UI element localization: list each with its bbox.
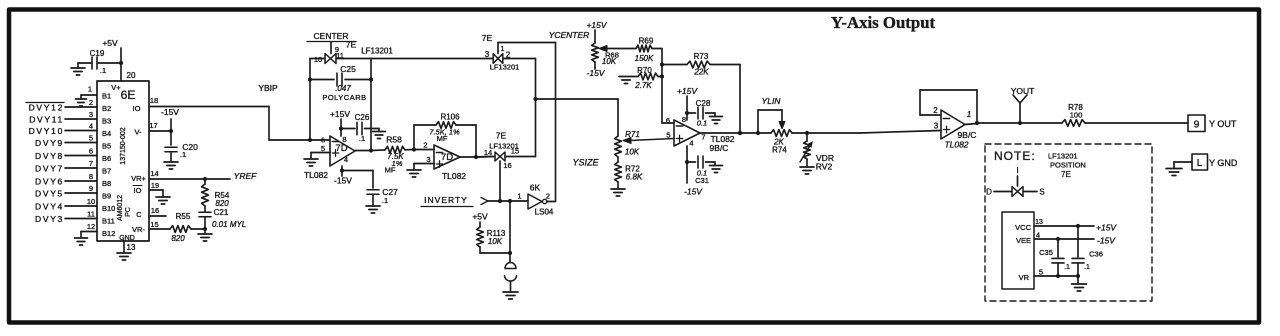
svg-text:RV2: RV2: [816, 162, 833, 172]
svg-text:10: 10: [314, 55, 322, 64]
wire R113 to jumper: [480, 251, 512, 255]
svg-text:5: 5: [1039, 268, 1043, 277]
wire op2 to switch c: [476, 156, 495, 159]
junction YLIN: [756, 131, 760, 135]
NOTE dashed box: [985, 144, 1152, 301]
net CENTER label: [307, 31, 356, 42]
svg-text:7D: 7D: [441, 152, 453, 163]
control net wire: [498, 43, 556, 202]
svg-text:YBIP: YBIP: [258, 83, 278, 93]
svg-text:GND: GND: [119, 235, 135, 242]
svg-text:10K: 10K: [625, 148, 640, 157]
svg-text:D: D: [986, 188, 992, 197]
op3 part TL082: [710, 134, 734, 144]
svg-text:Y OUT: Y OUT: [1209, 119, 1237, 129]
DAC GND label: [119, 235, 135, 242]
op3 pin 4: [689, 139, 693, 148]
svg-text:LF13201: LF13201: [490, 63, 520, 72]
NOTE VR label: [1019, 273, 1030, 282]
svg-text:S: S: [1039, 188, 1044, 197]
svg-text:CENTER: CENTER: [314, 31, 349, 41]
svg-text:5: 5: [89, 134, 93, 143]
ground at C20: [164, 162, 178, 169]
switch c control pin 16: [500, 161, 512, 201]
junction +5V/C19: [119, 61, 123, 65]
svg-text:100: 100: [1070, 111, 1083, 120]
op2 pin 3 wire: [414, 155, 434, 164]
svg-text:7E: 7E: [1061, 170, 1071, 179]
+15V at R68: [586, 20, 607, 30]
+5V at R113: [472, 212, 488, 222]
net YSIZE label: [572, 158, 599, 168]
junction YSIZE node: [533, 97, 537, 101]
svg-text:2: 2: [89, 98, 93, 107]
svg-text:15: 15: [511, 147, 519, 156]
svg-text:3: 3: [485, 50, 490, 59]
op1 part TL082: [304, 170, 328, 180]
op1 pin 4: [344, 155, 348, 164]
DAC designator 6E: [121, 88, 136, 102]
svg-text:+15V: +15V: [330, 109, 350, 119]
capacitor C19: [90, 49, 106, 75]
svg-text:6: 6: [666, 116, 670, 125]
R68 labels: [602, 51, 619, 67]
resistor R55: [170, 212, 205, 243]
capacitor C35: [1039, 239, 1070, 276]
svg-text:11: 11: [87, 210, 95, 219]
input DVY3 (pin 11): [35, 210, 97, 225]
wire INVERTY: [488, 200, 528, 202]
svg-text:B3: B3: [102, 117, 111, 126]
svg-text:B7: B7: [102, 167, 111, 176]
wire to YREF: [205, 178, 230, 180]
svg-text:B10: B10: [102, 204, 115, 213]
svg-text:4: 4: [344, 155, 348, 164]
svg-text:+15V: +15V: [586, 20, 607, 30]
DAC IO-bar label: [133, 186, 142, 196]
op1 pin 6: [321, 136, 325, 145]
svg-text:LS04: LS04: [535, 208, 554, 217]
svg-text:V-: V-: [134, 128, 142, 137]
op1 pin 4 wire: [340, 166, 344, 176]
svg-text:9B/C: 9B/C: [710, 143, 729, 153]
svg-text:-15V: -15V: [334, 176, 352, 186]
svg-text:B11: B11: [102, 217, 115, 226]
svg-text:C26: C26: [355, 113, 370, 122]
svg-text:DVY5: DVY5: [35, 189, 64, 199]
svg-text:MF: MF: [437, 134, 448, 143]
svg-text:YOUT: YOUT: [1011, 86, 1035, 96]
capacitor C26: [341, 113, 379, 143]
svg-text:YREF: YREF: [234, 171, 257, 181]
potentiometer R71: [615, 130, 640, 157]
RV2 labels: [816, 153, 834, 172]
ground at C19: [71, 63, 85, 75]
svg-text:B1: B1: [102, 92, 111, 101]
svg-text:8: 8: [682, 115, 686, 124]
DAC C label: [136, 210, 142, 219]
svg-text:C35: C35: [1039, 248, 1053, 257]
svg-text:15: 15: [150, 220, 158, 229]
svg-text:R55: R55: [176, 212, 191, 221]
+15V at op3: [677, 86, 698, 96]
svg-text:13: 13: [1035, 219, 1043, 226]
resistor R58: [371, 146, 414, 153]
svg-text:C19: C19: [90, 49, 105, 58]
svg-text:R74: R74: [772, 146, 787, 155]
svg-text:14: 14: [484, 148, 492, 157]
DAC V+ label: [111, 83, 121, 92]
varistor RV2: [800, 133, 813, 166]
svg-text:LF13201: LF13201: [1048, 152, 1078, 161]
wire YBIP down: [268, 107, 270, 141]
op2 part TL082: [442, 171, 466, 181]
ground at R70: [619, 77, 633, 84]
svg-text:7: 7: [89, 159, 93, 168]
pin 14 wire: [149, 169, 205, 179]
ground at C28: [710, 113, 723, 124]
potentiometer R74: [771, 130, 792, 155]
junction control 16: [498, 199, 502, 203]
op4 pin 2 wire: [920, 106, 941, 115]
svg-text:0.01 MYL: 0.01 MYL: [212, 220, 246, 229]
svg-text:.1: .1: [1064, 264, 1070, 271]
svg-text:C28: C28: [696, 99, 711, 108]
junction R58/R106: [412, 147, 416, 151]
DAC bit labels B1-B12: [102, 92, 115, 239]
wire C19 to +5V node: [98, 62, 121, 64]
NOTE VCC wire: [1034, 224, 1094, 228]
NOTE switch D pin: [986, 188, 1012, 197]
capacitor C25: [310, 64, 371, 86]
ground at R72: [611, 189, 625, 196]
svg-text:7D: 7D: [335, 143, 347, 154]
svg-text:C25: C25: [340, 64, 356, 74]
svg-text:IO: IO: [133, 104, 141, 113]
svg-text:I: I: [1016, 165, 1018, 175]
svg-text:137150-002: 137150-002: [120, 127, 127, 164]
svg-text:YLIN: YLIN: [762, 96, 782, 106]
svg-text:INVERTY: INVERTY: [424, 195, 468, 205]
svg-text:R70: R70: [637, 66, 652, 75]
op3 output wire: [700, 131, 941, 134]
op-amp U9B-a: [674, 120, 700, 146]
svg-text:DVY3: DVY3: [35, 214, 64, 224]
wire switch c to node: [505, 156, 536, 158]
wire +5V to DAC pin 20: [120, 48, 122, 81]
op3 pin 8: [682, 115, 686, 124]
svg-text:R71: R71: [625, 130, 640, 139]
wire C19 to ground: [78, 62, 92, 64]
feedback left vertical: [308, 59, 312, 143]
op2 plus: [436, 161, 442, 167]
svg-text:+15V: +15V: [677, 86, 698, 96]
NOTE pin 13: [1035, 219, 1043, 226]
op-amp U7D-b: [434, 145, 460, 169]
net YLIN label: [762, 96, 782, 106]
svg-text:7E: 7E: [496, 131, 507, 141]
potentiometer R68: [592, 30, 599, 69]
op2 minus: [436, 152, 442, 154]
input DVY10 (pin 4): [29, 122, 97, 137]
DAC VR+ label: [131, 174, 146, 183]
NOTE IC block: [1002, 212, 1034, 289]
svg-text:14: 14: [150, 169, 158, 178]
resistor R106: [414, 122, 476, 129]
wire into op2 pin 2: [414, 141, 434, 150]
svg-text:DVY12: DVY12: [29, 103, 64, 113]
svg-text:10K: 10K: [488, 237, 503, 246]
svg-text:7E: 7E: [346, 40, 357, 50]
connector pin 9: [1188, 115, 1205, 132]
op3 designator 9B/C: [710, 143, 729, 153]
svg-text:R58: R58: [386, 135, 402, 145]
svg-text:3: 3: [934, 122, 939, 131]
resistor R78: [1062, 103, 1085, 126]
wire inverter out: [547, 201, 556, 203]
svg-text:9B/C: 9B/C: [958, 130, 977, 140]
R58 labels: [385, 135, 405, 175]
svg-text:IO: IO: [134, 186, 142, 195]
svg-text:19: 19: [151, 181, 159, 190]
wire jumper vertical: [509, 201, 511, 253]
analog switch U7E-a (CENTER): [314, 51, 344, 64]
pin 19 wire: [149, 181, 163, 190]
C25 value .047 POLYCARB: [322, 84, 366, 102]
input DVY12 (pin 2): [26, 98, 97, 113]
ground below C21: [198, 229, 212, 241]
svg-text:16: 16: [151, 206, 159, 215]
svg-text:5: 5: [321, 144, 325, 153]
R71 wiper arrow: [623, 138, 674, 144]
NOTE pin 4: [1036, 231, 1040, 240]
svg-text:2.7K: 2.7K: [634, 81, 652, 90]
node YBIP: [258, 83, 278, 93]
pin 20 label: [127, 71, 136, 80]
svg-text:R106: R106: [440, 113, 460, 122]
svg-text:+15V: +15V: [1096, 223, 1117, 233]
U7E designator (switch c): [496, 131, 507, 141]
svg-text:-15V: -15V: [161, 107, 179, 117]
ground at RV2: [800, 167, 814, 174]
svg-text:1: 1: [517, 192, 521, 201]
op1 designator 7D: [335, 143, 347, 154]
svg-text:.1: .1: [180, 150, 186, 159]
svg-text:VR+: VR+: [131, 174, 146, 183]
op3 pin 8 wire: [685, 96, 689, 120]
resistor R73: [662, 52, 740, 77]
op4 minus: [943, 118, 949, 120]
feedback right vertical: [369, 59, 373, 153]
svg-text:2: 2: [933, 106, 938, 115]
svg-text:6.8K: 6.8K: [626, 173, 643, 182]
svg-text:3: 3: [89, 110, 93, 119]
resistor R113: [477, 222, 506, 253]
svg-text:2: 2: [546, 192, 550, 201]
svg-text:.047: .047: [335, 84, 351, 93]
svg-text:8: 8: [342, 135, 346, 144]
op1 minus: [332, 141, 338, 143]
pin 16 stub: [149, 206, 166, 216]
input DVY7 (pin 7): [35, 159, 97, 174]
svg-text:-15V: -15V: [1097, 236, 1116, 246]
wire R78 to connector 9: [1085, 122, 1188, 124]
op4 part TL082: [944, 140, 968, 150]
svg-text:22K: 22K: [693, 68, 709, 77]
net INVERTY label: [421, 195, 473, 207]
resistor R69: [635, 37, 662, 64]
svg-text:VCC: VCC: [1015, 223, 1031, 232]
svg-text:B5: B5: [102, 142, 111, 151]
DAC U6E body: [97, 81, 149, 241]
U7E part LF13201: [361, 47, 393, 56]
svg-text:9: 9: [89, 184, 93, 193]
svg-text:DVY9: DVY9: [35, 138, 64, 148]
capacitor C36: [1072, 226, 1103, 283]
svg-text:TL082: TL082: [442, 171, 466, 181]
ground at op1 pin 5: [304, 153, 318, 167]
op3 pin 6: [666, 116, 670, 125]
U7E designator (switch b): [482, 33, 493, 43]
DAC IO label: [133, 104, 141, 113]
op4 output wire: [965, 123, 1062, 125]
svg-text:17: 17: [149, 121, 157, 130]
DAC VR- label: [132, 225, 145, 234]
DAC part number 137150-002: [120, 127, 127, 164]
NOTE text 7E: [1061, 170, 1071, 179]
ground at pin 1: [76, 95, 87, 106]
svg-text:B9: B9: [102, 192, 111, 201]
U7E-b part LF13201: [490, 63, 520, 72]
svg-text:12: 12: [87, 222, 95, 231]
-15V label at pin 17: [161, 107, 179, 117]
NOTE text POSITION: [1050, 161, 1086, 170]
svg-text:-15V: -15V: [587, 68, 606, 78]
ground at pin 12: [75, 232, 88, 246]
inverter U6K designator: [530, 183, 541, 193]
ground at op2 pin 3: [407, 164, 421, 178]
label YOUT: [1209, 119, 1237, 129]
svg-text:10K: 10K: [602, 57, 617, 66]
op1 pin 8 wire: [339, 119, 343, 136]
op4 pin 3: [934, 122, 939, 131]
junction RV2: [805, 131, 809, 135]
input DVY8 (pin 6): [35, 147, 97, 162]
net YCENTER label: [549, 30, 590, 40]
resistor R72: [615, 157, 643, 188]
svg-text:C21: C21: [214, 208, 229, 217]
ground at C31: [710, 162, 723, 173]
pin 15 wire: [149, 220, 170, 229]
svg-text:B12: B12: [102, 229, 115, 238]
analog switch U7E-b pins 3-2: [485, 50, 511, 63]
+15V at op1: [330, 109, 350, 119]
junction VR+ node: [203, 177, 207, 181]
svg-text:6K: 6K: [530, 183, 541, 193]
capacitor C20: [165, 131, 198, 161]
wire to switch U7E-b: [371, 58, 493, 60]
svg-text:Y GND: Y GND: [1209, 158, 1238, 168]
svg-text:PC: PC: [125, 207, 132, 217]
NOTE pin 5: [1039, 268, 1043, 277]
label YGND: [1209, 158, 1238, 168]
svg-text:.1: .1: [1084, 264, 1090, 271]
svg-text:5: 5: [666, 131, 670, 140]
svg-text:150K: 150K: [635, 54, 654, 63]
NOTE heading: [994, 149, 1036, 163]
DAC part AM6012: [117, 195, 124, 221]
svg-text:B8: B8: [102, 179, 111, 188]
wire YSIZE horizontal: [536, 98, 619, 100]
svg-text:YSIZE: YSIZE: [572, 158, 599, 168]
op3 plus: [676, 135, 682, 141]
svg-text:TL082: TL082: [944, 140, 968, 150]
capacitor C28: [687, 99, 715, 128]
input DVY9 (pin 5): [35, 134, 97, 149]
op3 pin 5: [666, 131, 670, 140]
svg-text:DVY11: DVY11: [29, 115, 64, 125]
svg-text:6: 6: [89, 147, 93, 156]
svg-text:1: 1: [88, 85, 92, 94]
YLIN bracket: [758, 110, 785, 133]
svg-text:820: 820: [171, 234, 185, 243]
junction C21/R55: [203, 227, 207, 231]
wire YSIZE down: [617, 99, 619, 136]
U7E-c part LF13201: [489, 142, 519, 151]
svg-text:R69: R69: [639, 37, 654, 46]
DAC V- label: [134, 128, 142, 137]
svg-text:AM6012: AM6012: [117, 195, 124, 221]
svg-text:B4: B4: [102, 129, 111, 138]
NOTE analog switch symbol: [1012, 187, 1023, 197]
R106 feedback wire down: [474, 125, 478, 159]
+5V supply label: [102, 38, 118, 48]
svg-text:NOTE:: NOTE:: [994, 149, 1036, 163]
svg-text:2: 2: [423, 141, 427, 150]
svg-text:16: 16: [503, 161, 511, 170]
NOTE switch control: [1017, 176, 1019, 186]
svg-text:8: 8: [89, 172, 93, 181]
svg-text:B6: B6: [102, 154, 111, 163]
svg-text:3: 3: [426, 155, 430, 164]
pin 1 stub: [81, 85, 97, 96]
R106 feedback wire up: [413, 125, 415, 150]
ground at pin 13: [117, 253, 131, 260]
inverter pin 2: [546, 192, 550, 201]
op4 designator 9B/C: [958, 130, 977, 140]
svg-text:C36: C36: [1089, 250, 1103, 259]
op3 minus: [676, 125, 682, 127]
svg-text:DVY6: DVY6: [35, 177, 64, 187]
svg-text:4: 4: [1036, 231, 1040, 240]
wire switch right: [336, 58, 371, 60]
test point YOUT: [1011, 86, 1035, 125]
svg-text:1: 1: [967, 110, 971, 119]
NOTE text LF13201: [1048, 152, 1078, 161]
svg-text:20: 20: [127, 71, 136, 80]
svg-text:7: 7: [701, 133, 705, 142]
NOTE VR wire: [1034, 274, 1080, 278]
input DVY11 (pin 3): [29, 110, 97, 125]
junction R113 node: [508, 199, 512, 203]
ground at C36: [1072, 284, 1087, 291]
op3 pin 7: [701, 133, 705, 142]
svg-text:R73: R73: [694, 52, 709, 61]
op4 plus: [943, 126, 949, 132]
NOTE -15V: [1097, 236, 1116, 246]
switch U7E-a control pin 9: [331, 42, 339, 54]
svg-text:DVY8: DVY8: [35, 151, 64, 161]
